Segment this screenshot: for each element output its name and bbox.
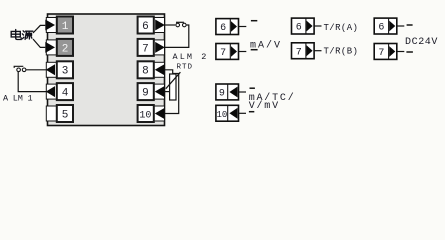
terminal 3 box xyxy=(57,61,73,78)
svg-text:6: 6 xyxy=(142,21,149,33)
terminal 6 box xyxy=(138,17,154,34)
svg-text:10: 10 xyxy=(216,110,227,120)
wire aux 6 T/R xyxy=(314,25,321,27)
svg-text:2: 2 xyxy=(62,43,69,55)
terminal 10 box xyxy=(138,105,154,122)
svg-text:1: 1 xyxy=(62,21,69,33)
main terminal block body xyxy=(48,14,165,126)
wire from 电源 to terminal 2 xyxy=(33,39,45,47)
aux terminal 6 (DC24V group) xyxy=(374,18,397,34)
wire ALM1 contact to terminal 4 xyxy=(18,72,46,92)
svg-text:7: 7 xyxy=(220,48,226,59)
terminal 1 arrow xyxy=(45,20,55,31)
wire aux 10 xyxy=(239,112,246,114)
svg-text:3: 3 xyxy=(62,66,69,78)
wire aux 7 T/R xyxy=(314,50,321,52)
label T/R(B) xyxy=(324,47,359,57)
terminal 7 arrow xyxy=(155,42,165,53)
wire aux 7 mA/V xyxy=(239,51,247,53)
minus mark aux 10 xyxy=(249,111,254,113)
minus mark aux 7 DC24V xyxy=(406,51,413,53)
minus mark aux 6 mA/V xyxy=(251,20,257,22)
label 电源 (power supply) xyxy=(11,30,33,40)
wire aux 9 xyxy=(239,91,246,93)
aux terminal 7 (mA/V group) xyxy=(216,44,239,60)
wire aux 7 DC24V xyxy=(397,51,404,53)
terminal 2 arrow xyxy=(45,42,55,53)
wire from 电源 to terminal 1 xyxy=(33,25,45,33)
svg-text:6: 6 xyxy=(296,23,302,34)
wire aux 6 mA/V xyxy=(239,26,247,28)
svg-text:mA/V: mA/V xyxy=(250,39,282,51)
svg-text:7: 7 xyxy=(142,43,149,55)
wire ALM2 contact to terminal 7 xyxy=(165,25,189,47)
terminal 3 notch xyxy=(46,62,57,77)
terminal 8 notch xyxy=(154,62,165,77)
svg-text:4: 4 xyxy=(62,88,69,100)
aux terminal 9 (mA/TC group) xyxy=(216,84,239,100)
terminal 10 arrow xyxy=(155,108,165,119)
wire aux 6 DC24V xyxy=(397,25,404,27)
terminal 9 notch xyxy=(154,84,165,99)
minus mark aux 7 mA/V xyxy=(251,49,258,51)
svg-text:V/mV: V/mV xyxy=(249,100,280,112)
svg-text:T/R(A): T/R(A) xyxy=(324,23,359,33)
label T/R(A) xyxy=(324,23,359,33)
svg-text:5: 5 xyxy=(62,109,69,121)
terminal 10 notch xyxy=(154,106,165,121)
svg-text:7: 7 xyxy=(296,47,302,58)
terminal 3 arrow xyxy=(46,64,55,75)
terminal 2 notch xyxy=(46,40,57,55)
svg-text:RTD: RTD xyxy=(177,63,194,71)
terminal 9 box xyxy=(138,83,154,100)
minus mark aux 9 xyxy=(250,87,255,89)
wire terminal 10 to RTD xyxy=(165,74,179,114)
wire terminal 8 to RTD xyxy=(165,70,173,74)
svg-text:9: 9 xyxy=(219,89,225,100)
svg-text:A LM 1: A LM 1 xyxy=(3,93,33,103)
terminal 7 notch xyxy=(154,40,165,55)
terminal 1 notch xyxy=(46,18,57,33)
terminal 4 box xyxy=(57,83,73,100)
terminal 8 arrow xyxy=(155,64,165,75)
svg-text:T/R(B): T/R(B) xyxy=(324,47,359,57)
terminal 6 arrow xyxy=(155,20,165,31)
wire terminal 6 to ALM2 contact xyxy=(165,24,176,26)
svg-text:DC24V: DC24V xyxy=(405,37,438,48)
aux terminal 10 (mA/TC group) xyxy=(216,105,239,121)
RTD sensor body xyxy=(166,72,181,100)
label RTD xyxy=(177,63,194,71)
svg-text:6: 6 xyxy=(378,23,384,34)
terminal 4 arrow xyxy=(46,86,55,97)
label DC24V xyxy=(405,37,438,48)
label mA/TC/ xyxy=(249,92,296,104)
wire terminal 9 to RTD xyxy=(165,91,170,93)
terminal 1 box xyxy=(57,17,73,34)
minus mark aux 6 DC24V xyxy=(407,24,413,26)
terminal 9 arrow xyxy=(155,86,165,97)
relay contact ALM2 xyxy=(176,22,186,27)
label ALM 2 xyxy=(173,52,209,62)
aux terminal 7 (T/R group) xyxy=(292,43,315,59)
label V/mV xyxy=(249,100,280,112)
terminal 5 box xyxy=(57,105,73,122)
svg-text:ALM 2: ALM 2 xyxy=(173,52,209,62)
svg-text:10: 10 xyxy=(139,110,151,121)
aux terminal 6 (mA/V group) xyxy=(216,19,239,35)
terminal 8 box xyxy=(138,61,154,78)
svg-text:8: 8 xyxy=(142,66,149,78)
terminal 7 box xyxy=(138,39,154,56)
terminal 2 box xyxy=(57,39,73,56)
svg-text:7: 7 xyxy=(378,48,384,59)
terminal 6 notch xyxy=(154,18,165,33)
svg-text:9: 9 xyxy=(142,88,149,100)
svg-text:6: 6 xyxy=(220,23,226,34)
relay contact ALM1 xyxy=(14,66,26,71)
label mA/V xyxy=(250,39,282,51)
terminal 4 notch xyxy=(46,84,57,99)
aux terminal 7 (DC24V group) xyxy=(374,44,397,60)
aux terminal 6 (T/R group) xyxy=(292,18,315,34)
label A LM 1 xyxy=(3,93,33,103)
terminal 5 notch xyxy=(46,106,57,121)
wire terminal 3 to ALM1 contact xyxy=(26,69,46,71)
